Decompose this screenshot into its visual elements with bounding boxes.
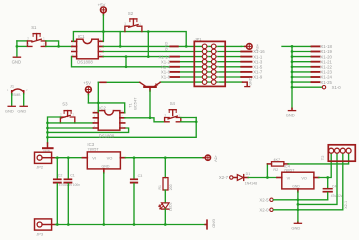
rail junction dots (56, 223, 167, 226)
transistor T1 BC547 (127, 82, 160, 110)
capacitor C2 (54, 158, 73, 225)
op IC2 DS1809 body (98, 105, 120, 138)
svg-text:R1: R1 (158, 185, 162, 190)
wire S1 left to GND (17, 41, 28, 56)
node junction row1/S2 drop (185, 45, 188, 48)
IC2 pins right 8-5 (120, 109, 125, 128)
IC2 pins left 1-4 (93, 109, 98, 128)
capacitor C1 (64, 158, 80, 225)
svg-text:DS1809: DS1809 (99, 133, 115, 138)
node junction S1-left (16, 45, 19, 48)
net stub X1-19 (312, 49, 333, 54)
svg-text:GND: GND (12, 60, 22, 65)
svg-text:GND: GND (291, 226, 300, 231)
svg-text:+5V: +5V (83, 80, 91, 85)
wire bus top to S3 (48, 117, 61, 137)
node junctions on IC4 GND (297, 198, 300, 211)
wire T1 emitter line left riser (97, 82, 99, 103)
wire T1 emitter line (98, 81, 140, 83)
regulator IC3 7805T (82, 142, 125, 173)
svg-text:R2: R2 (273, 168, 278, 172)
capacitor C3 (131, 158, 142, 225)
wire bus to S4 return line (48, 118, 197, 138)
wire row1 IC1 pin7 to JP1 (103, 45, 241, 47)
net stub X1-1 (241, 54, 263, 59)
net stub X1-8 (161, 75, 179, 80)
svg-text:GND: GND (249, 77, 253, 86)
svg-text:4: 4 (28, 43, 30, 47)
op IC1 DS1808 body (77, 34, 99, 64)
svg-text:1: 1 (178, 113, 180, 117)
pin X2-0 (259, 208, 273, 213)
ground GND (J1 pin2) (17, 106, 27, 113)
pin X1-0 (292, 85, 341, 90)
svg-text:VO: VO (107, 155, 113, 160)
wire +5V to IC2 pins 8,1 (88, 95, 124, 113)
net stub X1-2 (161, 59, 179, 64)
svg-text:T2: T2 (320, 155, 325, 160)
node junction row5 (125, 65, 128, 68)
wire J1 pin1 to GND (11, 94, 13, 106)
wire row6 stub to JP1 (179, 71, 241, 73)
supply +5V (IC2) (83, 80, 91, 94)
diode LED1 (159, 202, 173, 224)
svg-text:7805T: 7805T (87, 147, 99, 152)
svg-text:IC2: IC2 (99, 105, 106, 110)
svg-text:X1-0: X1-0 (332, 85, 342, 90)
switch S2 (124, 11, 142, 31)
svg-text:3: 3 (27, 37, 29, 41)
wire +5V down to IC1 pin8 (102, 15, 104, 41)
JP1 pin numbers (208, 45, 220, 84)
wire IC4 VO to T2 pin1 (319, 153, 331, 177)
wire crossing marker (100, 81, 106, 83)
wire IC3 VO to output (125, 157, 203, 159)
node junction +5V rail IC2 (97, 102, 100, 105)
svg-text:3: 3 (164, 113, 166, 117)
svg-text:GND: GND (5, 108, 14, 113)
wire S2 right to JP1 row1 drop (148, 32, 186, 47)
diode D1 1N4148 (233, 172, 257, 185)
svg-text:X2-7: X2-7 (219, 175, 229, 180)
wire T2 pin2 to GND (298, 153, 337, 204)
wire X2-5 to C4 bottom (274, 199, 328, 201)
svg-text:GND: GND (292, 184, 300, 188)
svg-text:VI: VI (92, 155, 96, 160)
wire row5 IC1 pin4 loop to JP1 (72, 57, 242, 67)
net stub X1-22 (312, 65, 333, 70)
pin X2-5 (259, 198, 273, 203)
ground GND (IC4) (291, 222, 301, 230)
node junction S2-right (147, 30, 150, 33)
wire X1 bus vertical (far right) (291, 46, 293, 108)
svg-text:JP3: JP3 (36, 231, 44, 236)
svg-text:GND: GND (212, 219, 217, 228)
svg-text:X2-1: X2-1 (344, 201, 348, 209)
svg-text:VO: VO (301, 176, 307, 180)
wire S2 right down to row3 (147, 32, 149, 57)
svg-text:1: 1 (72, 113, 74, 117)
svg-text:C3: C3 (138, 174, 143, 178)
node junction row3/pin4-loop (125, 55, 128, 58)
net stub X1-3 (241, 59, 263, 64)
node junction C4 top (326, 176, 329, 179)
wire +5V rail to IC1 pin1 (73, 32, 148, 42)
connector T2 (320, 145, 355, 161)
svg-text:100n: 100n (73, 183, 80, 187)
node junction C2 top (56, 156, 59, 159)
svg-text:S1: S1 (31, 25, 37, 30)
svg-text:C4: C4 (332, 185, 337, 189)
connector JP1 (194, 37, 225, 87)
ground GND (row8 right) (243, 77, 253, 86)
svg-text:GND: GND (17, 108, 26, 113)
node junction row3/S2 (147, 55, 150, 58)
net stub GND row1 (164, 42, 178, 51)
node junction +5V/pin8 (102, 30, 105, 33)
wire bus to IC2 pin4 (48, 127, 94, 129)
pin X2-7 (219, 175, 233, 180)
wire R2 riser (266, 164, 268, 178)
svg-text:JP2: JP2 (36, 165, 44, 170)
switch S1 (27, 25, 46, 46)
ground GND (bottom rail, rotated) (205, 219, 216, 229)
resistor R2 4K7 (267, 158, 288, 172)
net stub X1-21 (312, 59, 333, 64)
node junction R1 top (164, 156, 167, 159)
resistor R1 (158, 158, 173, 203)
ground GND (below S1) (12, 57, 22, 64)
svg-text:D1: D1 (246, 172, 251, 176)
wire IC4 GND down (297, 192, 299, 222)
svg-text:C2: C2 (58, 174, 63, 178)
svg-text:LED1: LED1 (169, 202, 173, 211)
supply +5V (top) (98, 2, 107, 15)
svg-text:4K7: 4K7 (273, 158, 280, 162)
wire row7 stub to JP1 (179, 76, 241, 78)
svg-text:C1: C1 (70, 174, 75, 178)
connector JP2 (35, 152, 56, 169)
svg-text:JSMB: JSMB (12, 93, 22, 97)
node junction S1-right (57, 45, 60, 48)
svg-text:X1-8: X1-8 (161, 75, 171, 80)
svg-text:X2-5: X2-5 (259, 198, 269, 203)
svg-text:GND: GND (286, 113, 295, 118)
svg-text:1N4148: 1N4148 (245, 181, 258, 185)
net stub X1-25 (312, 80, 333, 85)
connector JP3 (35, 219, 56, 237)
wire bus to IC2 pin5 riser (48, 128, 129, 132)
svg-text:X2-0: X2-0 (259, 208, 269, 213)
net stub X1-18 (312, 44, 333, 49)
net stub X1-16 (241, 49, 265, 54)
wire IC2 pin7 to S4 (125, 118, 165, 122)
wire S1 right to IC1 pin2 (46, 41, 72, 47)
svg-text:+5V: +5V (213, 155, 217, 162)
svg-text:IC1: IC1 (78, 34, 85, 39)
capacitor C4 (323, 178, 342, 200)
wire row4 stub to JP1 (179, 61, 241, 63)
svg-text:S4: S4 (170, 101, 176, 106)
svg-text:1: 1 (139, 22, 141, 26)
svg-text:3: 3 (124, 22, 126, 26)
net stub X1-24 (312, 75, 333, 80)
svg-text:200: 200 (169, 184, 173, 190)
node junction C3 top (133, 156, 136, 159)
switch S4 (164, 101, 180, 122)
wire rail tap to JP1 row1 (119, 32, 121, 47)
JP1 pin circles right column (211, 44, 216, 84)
svg-text:X1-9: X1-9 (253, 75, 263, 80)
wire IC3 GND down (103, 173, 105, 225)
svg-text:BC547: BC547 (133, 97, 138, 110)
wire row8 T1 collector to JP1 (160, 81, 242, 83)
wire S4 right to return (181, 118, 196, 122)
wire row3 IC1 pin5 to JP1 (103, 56, 241, 58)
node junction rail/row1 tap (119, 45, 122, 48)
wire bus row1 left extension (282, 45, 292, 47)
svg-text:3: 3 (60, 113, 62, 117)
wire R2 to T2 pin4 (288, 153, 349, 164)
IC1 pins left 1-4 (72, 38, 77, 57)
net stub X1-4 (161, 65, 179, 70)
net stub X1-23 (312, 70, 333, 75)
wire bottom ground rail (55, 224, 205, 226)
node junction S4 return (195, 120, 198, 123)
svg-text:S2: S2 (128, 11, 134, 16)
net stub X1-14 (159, 54, 179, 59)
JP1 pin circles left column (202, 44, 207, 84)
ground GND (J1 pin1) (5, 106, 15, 113)
net stub X1-20 (312, 54, 333, 59)
supply +5V (right of JP1) (245, 44, 260, 52)
svg-text:DS1808: DS1808 (77, 59, 93, 64)
wire JP2 to IC3 VI (55, 157, 82, 159)
svg-text:S3: S3 (62, 102, 68, 107)
svg-text:GND: GND (102, 165, 110, 169)
wire bus to IC2 pin3 (48, 122, 94, 124)
wire D1 to IC4 VI (248, 177, 277, 179)
ground GND (below X1 bus) (286, 108, 296, 117)
wire row1 right to +5V (241, 45, 245, 47)
svg-text:2: 2 (43, 43, 45, 47)
net stub X1-7 (241, 70, 263, 75)
bus junction dots (291, 45, 294, 88)
svg-text:GND: GND (164, 42, 169, 51)
switch S3 (60, 102, 75, 123)
wire row2 IC1 pin6 to JP1 (103, 51, 241, 53)
wire J1 pin2 to GND (23, 94, 25, 106)
pad JP2 riser with ground bar (43, 137, 53, 153)
bus junction dots (left bus) (46, 122, 49, 139)
IC1 pins right 8-5 (98, 38, 103, 57)
net stub X1-5 (241, 65, 263, 70)
regulator IC4 7805T (277, 163, 319, 192)
node junction base/pin7 row (149, 116, 152, 119)
svg-text:1: 1 (43, 37, 45, 41)
connector J1 JSMB (7, 84, 28, 97)
net stub X1-9 (241, 75, 263, 80)
node junction C1 top (67, 156, 70, 159)
net stub X1-6 (161, 70, 179, 75)
pin +5V output circle (205, 155, 217, 162)
svg-text:VI: VI (287, 176, 291, 180)
node junction D1/R2 (266, 176, 269, 179)
wire X2-0 to T2 pin3 (274, 153, 343, 210)
wire T1 base down (149, 91, 151, 118)
wire bus row stubs (292, 46, 312, 82)
